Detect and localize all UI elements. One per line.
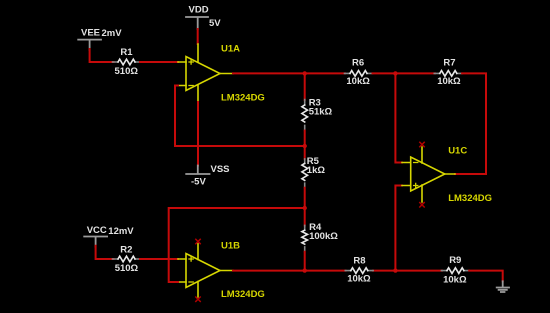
- node junction (R8/R9 to U1C +): [393, 268, 397, 272]
- unconnected pin X (U1B bottom): [196, 297, 200, 301]
- power terminal VCC: [84, 237, 107, 247]
- wire R5 to lower feedback node: [304, 188, 306, 208]
- resistor R7: [434, 71, 462, 77]
- svg-text:10kΩ: 10kΩ: [346, 76, 370, 87]
- svg-text:1kΩ: 1kΩ: [307, 165, 326, 176]
- wire R4 to bottom row: [304, 252, 306, 271]
- svg-text:2mV: 2mV: [102, 28, 123, 39]
- unconnected pin X (U1C top): [420, 142, 424, 146]
- power terminal VDD: [186, 17, 208, 29]
- op-amp U1A: [178, 44, 233, 102]
- wire R1 to U1A + input: [140, 61, 178, 63]
- svg-text:100kΩ: 100kΩ: [309, 231, 338, 242]
- resistor R3: [302, 100, 308, 131]
- op-amp U1B: [178, 244, 233, 298]
- svg-text:VSS: VSS: [211, 164, 230, 175]
- svg-text:R1: R1: [120, 47, 133, 58]
- wire node to R5: [304, 146, 306, 159]
- node junction (R4 bottom / output row): [303, 268, 307, 272]
- resistor R4: [302, 225, 308, 251]
- svg-text:10kΩ: 10kΩ: [437, 76, 461, 87]
- svg-text:VDD: VDD: [189, 5, 209, 16]
- wire output row to R3: [304, 73, 306, 100]
- resistor R6: [345, 71, 373, 77]
- svg-text:LM324DG: LM324DG: [221, 93, 265, 104]
- wire U1B feedback (- input loop): [169, 208, 305, 282]
- node junction (R5 bottom / U1B feedback): [303, 206, 307, 210]
- op-amp U1C: [402, 147, 455, 202]
- node junction (R3 top / output row): [303, 71, 307, 75]
- wire R3 to feedback node: [304, 131, 306, 146]
- node junction (R3 bottom / U1A feedback): [303, 144, 307, 148]
- unconnected pin X (U1C bottom): [420, 203, 424, 207]
- svg-text:5V: 5V: [209, 18, 221, 29]
- wire VDD to U1A power: [197, 29, 199, 44]
- wire node to R4: [304, 208, 306, 226]
- node junction (R6/R7 to U1C -): [393, 71, 397, 75]
- svg-text:R2: R2: [120, 244, 132, 255]
- svg-text:U1C: U1C: [448, 146, 467, 157]
- svg-text:510Ω: 510Ω: [115, 263, 139, 274]
- wire R6/R7 node to U1C - input: [395, 73, 402, 162]
- wire U1A to VSS: [197, 102, 199, 166]
- svg-text:VCC: VCC: [87, 225, 107, 236]
- svg-text:-5V: -5V: [191, 177, 206, 188]
- svg-text:R9: R9: [449, 255, 461, 266]
- svg-text:U1B: U1B: [221, 241, 240, 252]
- wire U1A output to R6 row: [233, 72, 345, 74]
- svg-text:LM324DG: LM324DG: [448, 193, 492, 204]
- svg-text:R6: R6: [352, 58, 364, 69]
- wire VEE to R1: [90, 49, 114, 62]
- svg-text:510Ω: 510Ω: [115, 66, 139, 77]
- resistor R2: [113, 256, 141, 262]
- svg-text:R7: R7: [443, 58, 455, 69]
- svg-text:VEE: VEE: [81, 28, 100, 39]
- svg-text:12mV: 12mV: [108, 226, 134, 237]
- unconnected pin X (U1B top): [196, 239, 200, 243]
- wire U1A feedback (- input loop): [175, 86, 305, 147]
- svg-text:LM324DG: LM324DG: [221, 289, 265, 300]
- svg-text:51kΩ: 51kΩ: [309, 107, 333, 118]
- ground symbol: [497, 281, 509, 292]
- resistor R8: [345, 268, 373, 274]
- wire R2 to U1B + input: [140, 258, 178, 260]
- power terminal VSS: [186, 166, 209, 175]
- wire U1B output to R8: [233, 270, 346, 272]
- resistor R1: [113, 59, 141, 65]
- wire R7 down to U1C output: [455, 73, 486, 174]
- wire R9 to ground: [469, 271, 503, 282]
- svg-text:10kΩ: 10kΩ: [347, 274, 371, 285]
- resistor R9: [441, 268, 469, 274]
- wire VCC to R2: [96, 246, 114, 259]
- svg-text:R8: R8: [353, 256, 365, 267]
- svg-text:10kΩ: 10kΩ: [443, 274, 467, 285]
- power terminal VEE: [78, 40, 101, 50]
- wire R8/R9 node to U1C + input: [395, 186, 402, 271]
- wire R6 to R7: [373, 72, 436, 74]
- wire R8 to R9: [373, 270, 442, 272]
- svg-text:U1A: U1A: [221, 44, 240, 55]
- resistor R5: [302, 159, 308, 188]
